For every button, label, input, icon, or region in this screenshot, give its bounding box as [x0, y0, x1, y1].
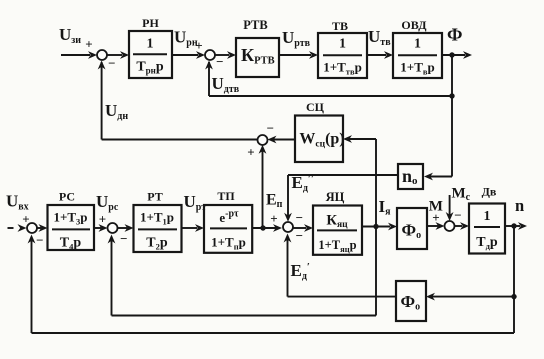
node n-to-Fo tap	[511, 294, 516, 299]
wire no to S6 (Ed'' path)	[284, 175, 398, 222]
wire Dv to output n	[505, 196, 527, 230]
summing junction S1 (voltage reg)	[97, 50, 116, 70]
node Phi tap	[449, 52, 454, 57]
summing junction S6 (EMF node)	[283, 173, 314, 282]
svg-text:1: 1	[339, 36, 346, 51]
svg-text:1+Т1​р: 1+Т1​р	[140, 210, 174, 227]
wire S5 to PT	[118, 224, 134, 232]
svg-text:+: +	[270, 211, 277, 226]
wire Ia tap to SC input	[343, 135, 376, 226]
svg-text:1+Ттв​р: 1+Ттв​р	[323, 60, 362, 77]
block Dv motor	[469, 185, 505, 254]
svg-text:+: +	[99, 211, 106, 226]
wire PC to S5, label Upc	[94, 192, 119, 232]
svg-text:1: 1	[414, 36, 421, 51]
summing junction S7 (torque node)	[445, 207, 462, 231]
wire S4 to PC	[37, 224, 48, 232]
wire YaC to Fo upper, label Ia	[362, 197, 397, 230]
svg-text:ЯЦ: ЯЦ	[326, 190, 345, 204]
svg-text:РТВ: РТВ	[243, 18, 267, 32]
svg-text:РН: РН	[142, 16, 159, 30]
block no base-speed	[398, 164, 423, 189]
summing junction S4 (speed reg node)	[27, 223, 44, 248]
wire OVD to output Phi	[442, 24, 472, 59]
svg-text:ОВД: ОВД	[401, 18, 427, 32]
svg-text:−: −	[120, 231, 127, 246]
svg-text:+: +	[247, 144, 254, 159]
block PH voltage regulator	[129, 16, 172, 78]
svg-text:Ф: Ф	[447, 24, 462, 44]
svg-text:n: n	[515, 196, 524, 215]
wire n to Fo lower	[426, 293, 514, 301]
svg-text:−: −	[36, 233, 43, 248]
svg-text:РТ: РТ	[147, 190, 162, 204]
wire SC to S3	[267, 121, 295, 144]
wire S6 to YaC	[293, 224, 313, 232]
svg-text:1+Тп​р: 1+Тп​р	[211, 234, 246, 251]
svg-text:РС: РС	[59, 190, 75, 204]
svg-text:−: −	[454, 207, 461, 222]
block YaC armature circuit	[313, 190, 362, 255]
block SC current-cutoff	[295, 100, 345, 162]
node Ia tap	[373, 224, 378, 229]
node n tap	[511, 223, 516, 228]
wire Fo lower to S6 (Ed' path)	[284, 234, 396, 297]
svg-text:1: 1	[147, 36, 154, 51]
wire n vertical down	[513, 226, 515, 333]
wire PH to S2, label Upn	[172, 28, 205, 59]
wire TP to S6, label Ep	[252, 192, 282, 232]
summing junction S2 (exciter reg)	[205, 50, 224, 69]
summing junction S5 (current reg node)	[108, 223, 128, 246]
svg-text:−: −	[296, 210, 303, 225]
wire Mc load input	[446, 186, 471, 222]
svg-text:1: 1	[484, 209, 491, 224]
node Ep tap	[260, 225, 265, 230]
block OVD excitation winding	[393, 18, 442, 78]
node Udtb tap	[449, 93, 454, 98]
svg-text:−: −	[216, 54, 223, 69]
block PC speed regulator	[48, 190, 95, 252]
summing junction S3 (cutoff node)	[247, 135, 267, 159]
wire Ia feedback to S5	[108, 227, 376, 316]
wire into block no	[424, 173, 452, 181]
svg-text:1+Тяц​р: 1+Тяц​р	[318, 238, 356, 254]
svg-text:+: +	[195, 38, 202, 53]
block PTB exciter-current regulator	[236, 18, 279, 77]
wire input Uzi	[59, 25, 97, 59]
wire Ep tap up into S3	[259, 145, 267, 228]
wire n feedback to S4	[28, 235, 514, 334]
svg-text:ТВ: ТВ	[332, 19, 348, 33]
block TB thyristor exciter	[318, 19, 367, 78]
block PT current regulator	[134, 190, 182, 253]
wire PTB to TB, label Uptb	[279, 28, 318, 59]
svg-text:−: −	[267, 121, 274, 136]
wire S2 to PTB	[215, 51, 236, 59]
wire Phi vertical down	[451, 55, 453, 177]
wire Udtb feedback to S2	[205, 61, 452, 97]
block Fo upper (flux gain)	[397, 208, 427, 249]
block Fo lower (EMF coeff)	[396, 281, 426, 321]
svg-text:ТП: ТП	[217, 189, 235, 203]
svg-text:+: +	[85, 36, 92, 51]
wire input Uvx	[6, 192, 30, 232]
wire S1 to PH	[107, 51, 129, 59]
svg-text:−: −	[296, 228, 303, 243]
svg-text:СЦ: СЦ	[306, 100, 325, 114]
svg-text:1+Тв​р: 1+Тв​р	[400, 60, 434, 77]
wire S3 to Udn feedback into S1	[98, 61, 258, 140]
svg-text:Дв: Дв	[482, 185, 497, 199]
wire S7 to Dv	[455, 222, 470, 230]
svg-text:+: +	[432, 210, 439, 225]
wire TB to OVD, label Utb	[367, 27, 393, 59]
svg-text:1+Т3​р: 1+Т3​р	[53, 210, 87, 227]
wire Fo to S7, label M	[427, 199, 445, 230]
svg-text:−: −	[108, 55, 115, 70]
block TP thyristor converter	[204, 189, 252, 253]
wire PT to TP, label Upt	[182, 192, 207, 232]
